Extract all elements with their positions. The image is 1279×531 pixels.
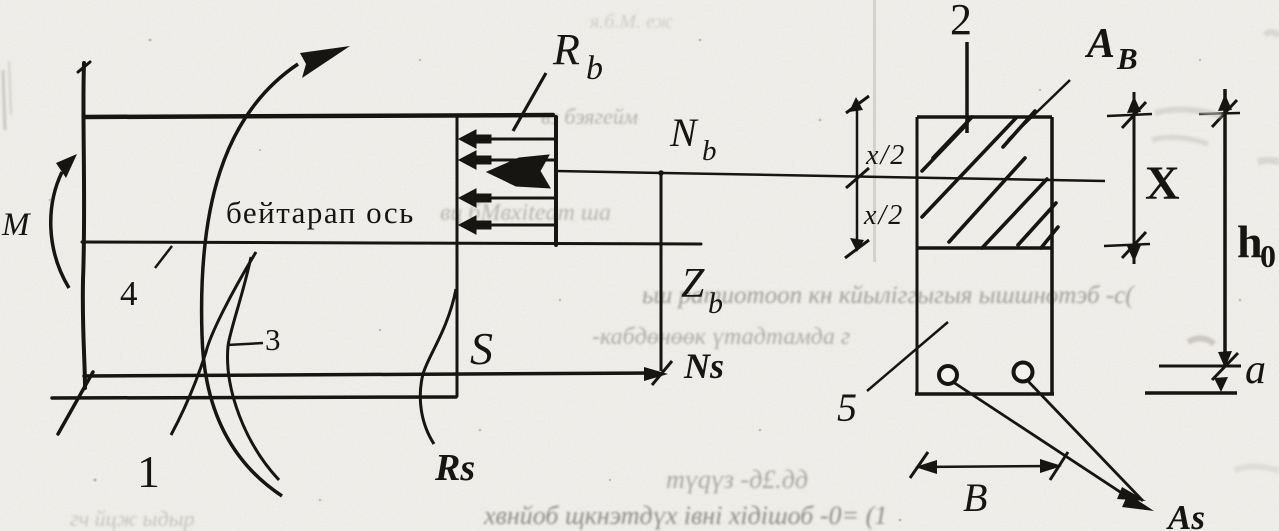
M arc [51,172,69,288]
svg-text:h: h [1237,216,1263,267]
crack 1 curve [171,252,256,435]
h0 dimension [1199,89,1240,380]
M arc arrowhead [56,154,77,178]
svg-text:x/2: x/2 [865,140,906,171]
Ns line (steel axis) [84,373,655,376]
svg-text:b: b [586,50,603,87]
svg-text:B: B [963,475,987,520]
svg-text:хвнйоб щкнэтдүх івні хідішоб -: хвнйоб щкнэтдүх івні хідішоб -0= (1 [483,501,887,530]
Ns tick [652,361,672,385]
junction node [658,170,664,176]
svg-text:N: N [669,110,699,155]
arrow row 1 [488,138,556,141]
stress arrows in block [459,130,556,234]
crack Rs curve [420,289,456,444]
svg-text:M: M [1,207,31,243]
svg-text:x/2: x/2 [863,200,904,231]
svg-text:As: As [1166,498,1205,531]
svg-text:S: S [470,323,493,374]
scan gutter band [873,0,876,262]
stress block right edge [554,117,558,245]
X dimension [1104,92,1152,264]
big arrow head [300,46,350,78]
svg-text:X: X [1145,157,1180,210]
svg-text:b: b [708,287,723,320]
svg-text:түqүз -д£.дд: түqүз -д£.дд [666,465,808,494]
label 3 leader [227,343,263,345]
B dimension [917,466,1060,467]
beam bottom edge [52,397,456,398]
svg-text:4: 4 [120,274,138,313]
crack 3 curve [228,257,279,480]
Zb vertical line [660,172,663,371]
neutral axis line [82,242,701,244]
label 4 leader [155,246,172,268]
svg-text:2: 2 [950,0,972,44]
left support vertical line [83,63,85,388]
svg-text:Rs: Rs [434,447,475,489]
x/2 dimension line [845,96,869,258]
svg-text:B: B [1116,41,1138,76]
svg-text:5: 5 [837,385,857,430]
arrow row 2 [488,159,556,162]
Nb axis long line [556,171,1105,181]
svg-text:R: R [552,25,580,74]
svg-text:1: 1 [137,446,160,497]
svg-text:3: 3 [265,322,281,357]
left support top tick [78,62,90,72]
support hatch diagonal [58,372,93,434]
section cut vertical line [456,116,459,396]
arrow row 3 [488,197,556,200]
moment arc big arrow [202,64,298,496]
svg-text:гч йцж ыдыр: гч йцж ыдыр [70,506,194,531]
beam top edge [84,115,553,117]
svg-text:0: 0 [1260,238,1276,274]
big resultant arrow head [487,155,550,188]
a dimension [1159,365,1241,368]
Ns arrowhead [644,367,668,381]
svg-text:бейтарап ось: бейтарап ось [226,195,415,230]
section outline [915,117,1054,394]
As leaders [953,382,1146,509]
label 5 and leader [867,322,948,391]
svg-text:A: A [1084,21,1115,67]
hatch lines [922,111,1058,248]
A_B label and leader [1008,80,1070,140]
rebar circles [939,366,957,384]
svg-text:a: a [1245,347,1266,393]
arrow row 4 [488,224,556,227]
svg-text:Z: Z [681,261,705,307]
svg-text:Ns: Ns [683,346,724,386]
svg-text:я.б.М. еж: я.б.М. еж [589,11,673,33]
Rb leader [513,73,546,131]
svg-text:b: b [702,135,717,167]
